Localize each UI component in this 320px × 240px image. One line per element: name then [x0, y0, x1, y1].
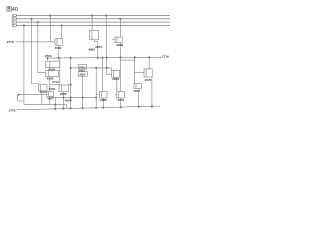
- node dot bus1 x92.1: [91, 15, 93, 17]
- wire bus line 2: [16, 18, 170, 20]
- label 2776: [7, 40, 14, 44]
- wire rail D: [18, 94, 47, 96]
- label 4062: [88, 47, 95, 51]
- svg-text:4069: 4069: [55, 46, 62, 50]
- svg-text:2776: 2776: [7, 40, 14, 44]
- transistor Q13: [134, 84, 142, 107]
- label 4053: [79, 69, 85, 73]
- wire vertical x59.8 railA to Q10 top: [59, 58, 61, 85]
- node dot railA x134.7: [134, 57, 136, 59]
- svg-text:4062: 4062: [88, 47, 95, 51]
- svg-text:4054: 4054: [79, 73, 85, 77]
- node dot railA x47.5: [47, 57, 49, 59]
- label 2770: [9, 108, 16, 112]
- wire vertical x120.3 bus2 to Q3: [119, 19, 121, 37]
- wire vertical x37.8 bus3 to box2 gate: [38, 22, 46, 72]
- wire vertical x70.6 railA to rail B: [70, 58, 72, 109]
- node dot x70.6 y84.6: [70, 84, 72, 86]
- label 2804: [112, 77, 119, 81]
- node dot railB x63.4: [63, 108, 65, 110]
- transistor Q4: [135, 57, 153, 106]
- wire vertical x66.4 railC end to railB: [65, 105, 67, 109]
- connector J1: [12, 14, 16, 28]
- label 4056: [48, 67, 55, 71]
- node dot bus4 x23.9: [23, 25, 25, 27]
- transistor Q11: [99, 58, 107, 108]
- node dot railA x97.8: [97, 57, 99, 59]
- node dot railC x55.3: [55, 104, 57, 106]
- wire vertical x17.5 and corner to rail C: [18, 95, 24, 101]
- label 2716 right: [162, 55, 169, 59]
- transistor Q9: [47, 92, 54, 105]
- transistor Q5a upper box: [78, 64, 86, 69]
- node dot bus3 x37.8: [37, 21, 39, 23]
- wire vertical x96.2 railE to Q11 gate: [95, 68, 97, 108]
- title 图40: [6, 5, 18, 13]
- wire vertical x55.3 railG to railB: [54, 98, 56, 109]
- wire vertical x134.7 railA to Q13: [134, 57, 136, 83]
- wire bus line 3: [16, 21, 170, 23]
- wire vertical x50.4 bus1 to gate wire F: [49, 16, 51, 42]
- label 2807: [95, 45, 102, 49]
- svg-text:4060: 4060: [60, 92, 67, 96]
- wire rail A: [47, 56, 161, 59]
- svg-text:2714: 2714: [52, 80, 59, 84]
- node dot railA x70.6: [70, 57, 72, 59]
- label 2714: [52, 80, 59, 84]
- label 4057: [47, 97, 54, 101]
- wire vertical x31.6 bus2 to Q8 gate: [32, 19, 39, 84]
- node dot railA x102.4: [102, 57, 104, 59]
- transistor Q1: [55, 26, 63, 59]
- svg-text:4051: 4051: [40, 90, 47, 94]
- svg-text:2770: 2770: [9, 108, 16, 112]
- label 4061: [118, 98, 125, 102]
- node dot railG x70.6: [70, 97, 72, 99]
- node dot bus2 x120.3: [120, 18, 122, 20]
- node dot railB x82.7: [82, 107, 84, 109]
- label 4069: [55, 46, 62, 50]
- node dot bus1 x106.2: [105, 15, 107, 17]
- node dot bus1 x50.4: [50, 15, 52, 17]
- label 2805: [100, 98, 107, 102]
- node dot railB x55.3: [55, 108, 57, 110]
- wire rail B bottom: [17, 106, 160, 110]
- svg-text:4059: 4059: [65, 98, 72, 102]
- label 4058: [47, 77, 54, 81]
- transistor Q12: [115, 91, 125, 107]
- wire vertical x23.9 bus4 to rail C: [23, 26, 25, 105]
- wire vertical x106.2 bus1 to rail A and rail E: [105, 16, 108, 68]
- transistor Q2: [90, 30, 99, 57]
- svg-text:4052: 4052: [49, 87, 56, 91]
- node dot railG x63.4: [63, 97, 65, 99]
- node dot railE x106.7: [106, 67, 108, 69]
- node dot railB x138.7: [138, 106, 140, 108]
- wire rail A end tick: [160, 56, 162, 58]
- label 4059: [65, 98, 72, 102]
- label 4070: [145, 78, 152, 82]
- transistor Q6: [107, 70, 120, 91]
- transistor Q3: [112, 37, 122, 57]
- node dot railA x58.8: [58, 57, 60, 59]
- label 2704: [45, 54, 52, 58]
- transistor Q5b lower box: [78, 72, 87, 109]
- wire bus line 1: [16, 15, 170, 17]
- svg-text:4053: 4053: [79, 69, 85, 73]
- node dot railB x103.3: [103, 107, 105, 109]
- svg-text:2715: 2715: [79, 65, 85, 69]
- node dot railB x151.9: [151, 106, 153, 108]
- label 4052: [49, 87, 56, 91]
- wire vertical x120.5 H to Q12: [120, 60, 122, 91]
- node dot railD x18.7: [18, 94, 20, 96]
- node dot railA x149.2: [148, 57, 150, 59]
- transistor Q10: [50, 85, 71, 109]
- svg-text:2806: 2806: [116, 43, 123, 47]
- wire vertical x92.1 bus1 to Q2: [91, 16, 93, 31]
- svg-text:图40: 图40: [6, 5, 18, 13]
- node dot railB x70.6: [70, 108, 72, 110]
- svg-text:4061: 4061: [118, 98, 125, 102]
- node dot railA x106.7: [106, 57, 108, 59]
- wire vertical x106.7 railE to Q6 gate: [106, 68, 108, 75]
- node dot railE x70.6: [70, 67, 72, 69]
- node dot railE x96.2: [95, 67, 97, 69]
- wire rail C: [24, 104, 67, 106]
- node dot railA x120.5: [120, 57, 122, 59]
- wire H Q3 source to T13: [121, 58, 135, 61]
- wire vertical x31.6 end / transistor Q8: [39, 85, 48, 105]
- wire rail E: [71, 68, 112, 70]
- svg-text:2804: 2804: [112, 77, 119, 81]
- svg-text:2805: 2805: [100, 98, 107, 102]
- node dot railB x96.2: [95, 107, 97, 109]
- node dot railB x120.7: [120, 106, 122, 108]
- node dot bus2 x31.6: [31, 18, 33, 20]
- label 4071: [133, 89, 140, 93]
- svg-text:4070: 4070: [145, 78, 152, 82]
- node dot bus4 x61.6: [61, 25, 63, 27]
- svg-text:2716: 2716: [162, 55, 169, 59]
- node dot railG x82.7: [82, 97, 84, 99]
- wire gate F to Q1: [16, 41, 55, 43]
- box U1 top: [46, 58, 60, 68]
- wire bus line 4: [16, 25, 170, 27]
- svg-text:2807: 2807: [95, 45, 102, 49]
- label 4051: [40, 90, 47, 94]
- svg-text:4057: 4057: [47, 97, 54, 101]
- label 4060: [60, 92, 67, 96]
- label 2806: [116, 43, 123, 47]
- node dot railG x96.2: [95, 97, 97, 99]
- box U2 lower: [46, 71, 59, 92]
- svg-text:4071: 4071: [133, 89, 140, 93]
- wire rail G: [50, 97, 96, 99]
